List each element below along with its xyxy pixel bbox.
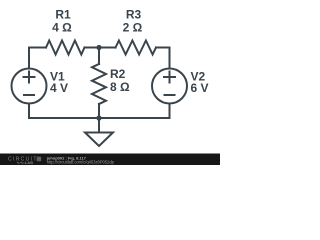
svg-text:8 Ω: 8 Ω	[110, 80, 130, 94]
svg-text:4 Ω: 4 Ω	[52, 21, 72, 35]
svg-text:R3: R3	[126, 8, 142, 22]
svg-text:2 Ω: 2 Ω	[123, 21, 143, 35]
svg-text:http://circuitlab.com/c/q453z8: http://circuitlab.com/c/q453z8P052dp	[47, 160, 115, 165]
svg-text:R1: R1	[55, 8, 71, 22]
svg-text:4 V: 4 V	[50, 81, 68, 95]
svg-text:6 V: 6 V	[191, 81, 209, 95]
svg-text:R2: R2	[110, 67, 126, 81]
svg-text:∿∿•LAB: ∿∿•LAB	[17, 161, 34, 165]
